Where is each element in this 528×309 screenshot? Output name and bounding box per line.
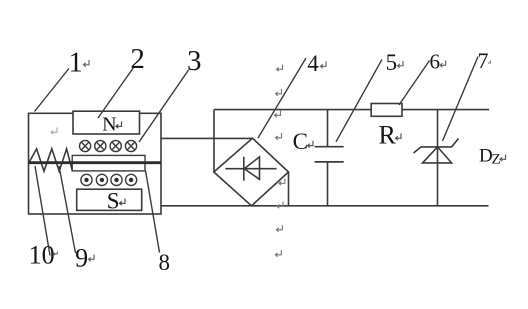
capacitor C top plate [315,146,344,148]
svg-text:5: 5 [386,50,398,75]
wire: generator upper output to bridge top corner [161,137,253,139]
bridge rectifier diamond (item 4) [214,138,289,206]
return mark after C [308,141,314,148]
capacitor C bottom plate [315,161,344,163]
small mark after 10 [54,252,58,256]
winding cross symbols row (item 3) [80,140,137,151]
wire: top rail [214,109,489,111]
zener diode cathode bar with bent tips [414,139,459,154]
wire: bottom rail [161,205,489,207]
capacitor C branch lower wire [327,162,329,206]
leader line 7 [443,57,479,142]
svg-text:2: 2 [130,43,145,75]
wire: bridge right corner down to bottom rail [288,172,290,206]
leader line 4 [258,58,306,138]
small mark after 7 [488,61,491,64]
zener diode branch wire (item 7) [437,110,439,206]
leader line 5 [336,60,382,142]
leader line 6 [399,61,430,106]
diode inside bridge [225,157,276,181]
generator housing box (item 1) [29,113,162,214]
shaft thick line [29,161,162,164]
return mark after 9 [89,255,95,262]
leader line 2 [98,68,134,119]
svg-text:9: 9 [75,244,88,273]
return mark after 4 [321,62,327,69]
svg-text:C: C [293,129,308,154]
S pole box [77,189,142,210]
zener diode triangle [423,147,452,163]
leader line 10 [35,166,50,256]
paragraph return mark column (document artifacts) [275,65,285,257]
resistor R box (item 6) [371,104,402,117]
N pole box (item 2) [73,111,140,134]
svg-text:3: 3 [187,45,202,77]
return mark after DZ [500,155,506,162]
svg-text:S: S [107,188,120,213]
field winding zigzag (item 9/10 coil) [29,149,72,171]
winding dot symbols row [81,174,137,185]
return mark after 5 [398,61,404,68]
svg-text:10: 10 [29,241,55,270]
return mark after R [396,134,402,141]
return mark after 1 [84,60,90,67]
return mark after N [116,122,122,129]
svg-text:7: 7 [478,48,489,73]
svg-text:8: 8 [158,250,170,275]
return mark after S [120,199,126,206]
svg-text:4: 4 [307,51,319,76]
return mark after 6 [440,61,446,68]
leader line 1 [35,69,69,112]
faint return mark inside generator box [51,128,57,135]
svg-text:N: N [102,113,116,135]
leader line 3 [139,70,189,142]
wire: vertical from top rail to bridge left corner [213,110,215,172]
leader line 8 [146,171,160,253]
svg-text:6: 6 [429,50,440,74]
leader line 9 [59,166,76,253]
armature bar (item 8) [72,155,145,171]
svg-text:1: 1 [69,47,83,78]
capacitor C branch upper wire [327,110,329,147]
svg-text:R: R [379,120,397,149]
